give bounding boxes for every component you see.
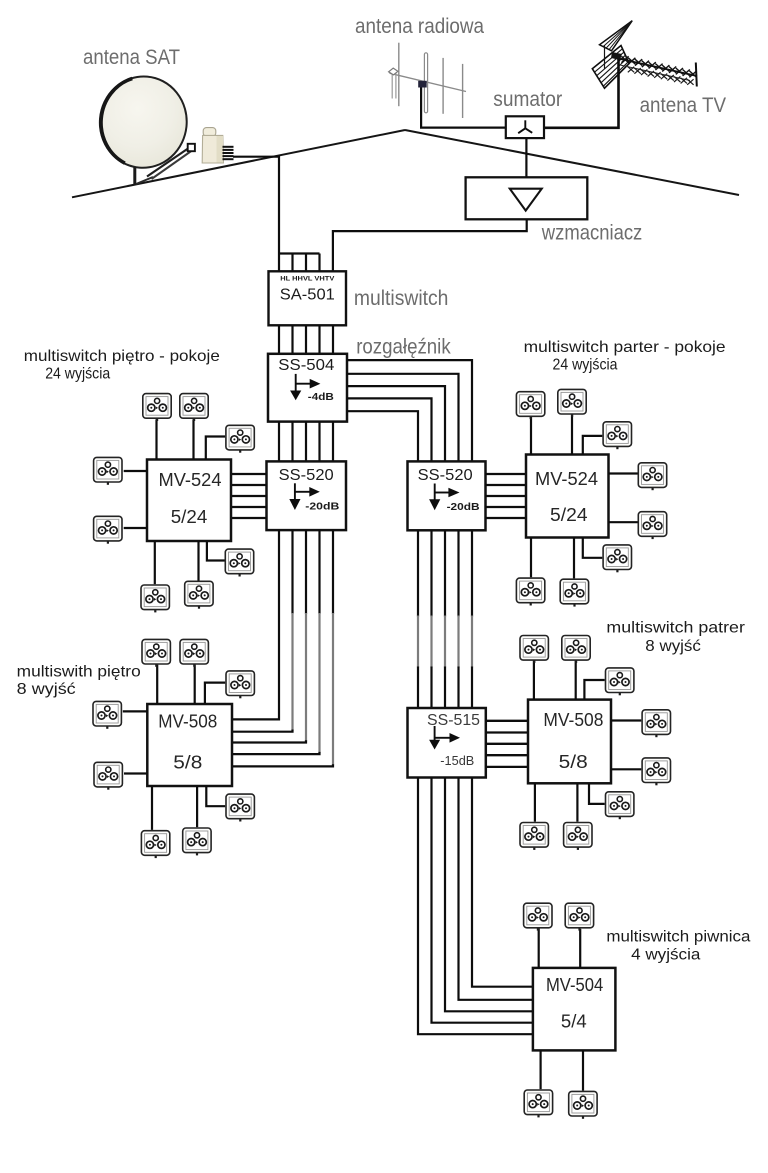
wire to outlet C6 [206,786,225,806]
wire to outlet E2 [579,929,581,968]
wall outlet A1 [143,394,171,421]
pins SA-501 to SS-504 [279,325,333,354]
wall outlet B8 [560,579,588,606]
wire to outlet C4 [123,710,148,712]
label multiswitch piwnica [606,929,750,946]
label wzmacniacz [541,222,642,245]
rozgałęźnik SS-504 box [268,354,347,422]
wire to outlet C8 [196,786,198,827]
pins SS-504 to SS-520 left [279,422,333,462]
wire to outlet E4 [582,1050,584,1090]
wire to outlet B6 [583,538,603,558]
multiswitch MV-524 left box (piętro) [147,460,231,542]
wall outlet C8 [183,828,211,855]
SAT IF input bus above SA-501 [279,254,320,272]
label multiswitch parter - pokoje [524,339,726,356]
wire to outlet B8 [573,538,575,579]
label 4 wyjścia [631,947,700,964]
svg-text:-20dB: -20dB [305,501,339,513]
svg-text:multiswitch piwnica: multiswitch piwnica [606,929,750,946]
svg-text:24 wyjścia: 24 wyjścia [553,357,618,374]
coax cable from LNB down to SA-501 [233,157,279,254]
svg-text:HL HHVL VHTV: HL HHVL VHTV [280,276,335,283]
svg-text:multiswitch piętro - pokoje: multiswitch piętro - pokoje [24,348,220,365]
label multiswitch piętro - pokoje [24,348,220,365]
left riser cables SS-520 left down to MV-508 left [232,530,333,767]
svg-text:5/8: 5/8 [559,752,588,772]
svg-text:antena SAT: antena SAT [83,46,180,69]
svg-text:wzmacniacz: wzmacniacz [541,222,642,245]
cable sumator to wzmacniacz [525,138,527,177]
wires SS-515 to MV-508 right [486,721,528,767]
wire to outlet D2 [575,661,577,700]
svg-text:multiswith piętro: multiswith piętro [17,664,141,681]
wall outlet E4 [569,1091,597,1118]
wire to outlet A8 [197,541,199,581]
label 8 wyjść left [17,681,76,698]
multiswitch MV-508 left box (piętro 8) [147,704,232,786]
svg-text:SA-501: SA-501 [280,287,335,304]
wire to outlet C5 [124,772,147,774]
svg-text:MV-504: MV-504 [546,974,603,995]
wall outlet D4 [642,710,670,737]
wall outlet B3 [603,422,631,449]
wzmacniacz amplifier box with triangle [466,177,588,219]
wire to outlet C3 [205,683,225,704]
svg-text:antena TV: antena TV [640,94,727,117]
label multiswith piętro [17,664,141,681]
roof line right slope [405,130,739,195]
wire to outlet A2 [192,419,194,459]
wire to outlet A3 [206,437,225,460]
svg-text:5/8: 5/8 [173,753,202,773]
wire to outlet B3 [583,436,603,455]
right riser cables SS-520 right down to SS-515 [418,530,472,708]
svg-text:24 wyjścia: 24 wyjścia [45,365,110,382]
svg-text:MV-524: MV-524 [159,469,222,490]
svg-text:SS-520: SS-520 [279,467,334,484]
wall outlet A3 [226,425,254,452]
label rozgałęźnik [356,336,451,359]
wall outlet C1 [142,639,170,666]
wire to outlet D3 [584,680,604,700]
svg-text:-20dB: -20dB [447,501,480,513]
wall outlet C4 [93,701,121,728]
svg-text:multiswitch parter - pokoje: multiswitch parter - pokoje [524,339,726,356]
wire to outlet A5 [124,527,147,529]
svg-text:8 wyjść: 8 wyjść [17,681,76,698]
wire to outlet B2 [571,414,573,454]
wall outlet B4 [638,463,666,490]
svg-text:5/24: 5/24 [171,506,208,527]
svg-text:multiswitch: multiswitch [354,287,449,310]
wire to outlet E1 [538,928,540,968]
multiswitch MV-508 right box (parter 8) [528,700,611,784]
fan-out wires SS-504 to right branch [347,360,472,461]
wall outlet C6 [226,794,254,821]
wall outlet E2 [565,903,593,930]
splitter SS-520 left box [267,461,347,530]
wire to outlet A4 [124,470,147,472]
cable from TV antenna to sumator [544,59,619,128]
svg-text:SS-520: SS-520 [418,467,473,484]
wall outlet D1 [520,636,548,663]
wall outlet D2 [562,636,590,663]
wire to outlet D5 [611,768,641,770]
roof line left slope [72,130,405,197]
wall outlet B6 [603,545,631,572]
wire to outlet D7 [534,783,536,821]
svg-text:sumator: sumator [493,88,562,111]
label multiswitch [354,287,449,310]
wall outlet C2 [180,639,208,666]
wires SS-520 right to MV-524 right [486,474,527,518]
cable from radio antenna to sumator [421,88,506,128]
svg-text:MV-508: MV-508 [158,712,217,732]
label antena radiowa [355,15,484,38]
wall outlet A8 [185,581,213,608]
satellite dish antena SAT [96,73,195,185]
svg-text:MV-524: MV-524 [535,468,598,489]
svg-text:4 wyjścia: 4 wyjścia [631,947,700,964]
svg-text:MV-508: MV-508 [543,710,603,730]
wall outlet A5 [94,516,122,543]
wall outlet B2 [558,389,586,416]
wall outlet A2 [180,394,208,421]
cable wzmacniacz output to SA-501 TV input [333,219,527,271]
wall outlet D7 [520,823,548,850]
wall outlet D6 [606,792,634,819]
wire to outlet D4 [611,719,641,721]
multiswitch SA-501 box [269,271,347,325]
svg-text:SS-504: SS-504 [278,357,334,374]
svg-text:antena radiowa: antena radiowa [355,15,484,38]
wall outlet D3 [606,668,634,695]
wire to outlet B4 [609,472,638,474]
splitter SS-520 right box [408,461,486,530]
radio antenna (antena radiowa) [389,43,466,118]
label sumator [493,88,562,111]
wire to outlet D6 [589,783,605,804]
wall outlet A6 [225,549,253,576]
wall outlet C7 [141,831,169,858]
wall outlet D5 [642,758,670,785]
svg-text:-15dB: -15dB [440,753,474,768]
wires SS-520 left to MV-524 left [231,474,267,518]
multiswitch MV-504 box (piwnica) [533,968,616,1051]
wire to outlet B7 [530,538,532,578]
label 24 wyjścia left [45,365,110,382]
multiswitch MV-524 right box (parter) [526,455,609,538]
wall outlet E3 [524,1090,552,1117]
wire to outlet C7 [151,786,153,830]
wall outlet B7 [516,578,544,605]
sumator combiner box [506,116,544,138]
LNB converter on dish arm [202,128,233,163]
label 8 wyjść right [645,638,701,655]
wall outlet B1 [516,392,544,419]
wire to outlet A7 [154,541,156,584]
wire to outlet C1 [156,665,158,704]
svg-text:5/4: 5/4 [561,1011,587,1032]
wire to outlet B1 [530,416,532,455]
wire to outlet E3 [539,1050,541,1089]
wall outlet C3 [226,671,254,698]
wire to outlet D8 [576,783,578,821]
wire to outlet A1 [155,419,157,459]
wire to outlet B5 [609,521,638,523]
wall outlet A7 [141,585,169,612]
wall outlet A4 [94,457,122,484]
wire to outlet C2 [194,665,196,704]
wall outlet E1 [524,903,552,930]
wire to outlet A6 [207,541,225,561]
label 24 wyjścia right [553,357,618,374]
svg-text:5/24: 5/24 [550,504,588,525]
wall outlet B5 [638,512,666,539]
label antena TV [640,94,727,117]
label antena SAT [83,46,180,69]
riser cables SS-515 down to MV-504 [418,778,533,1035]
svg-text:multiswitch patrer: multiswitch patrer [606,620,745,637]
wall outlet D8 [564,823,592,850]
wall outlet C5 [94,762,122,789]
svg-text:-4dB: -4dB [308,392,334,403]
label multiswitch patrer [606,620,745,637]
TV antenna (antena TV) [592,21,697,89]
wire to outlet D1 [533,661,535,700]
svg-text:rozgałęźnik: rozgałęźnik [356,336,451,359]
svg-text:8 wyjść: 8 wyjść [645,638,701,655]
tap splitter SS-515 box [408,708,486,778]
